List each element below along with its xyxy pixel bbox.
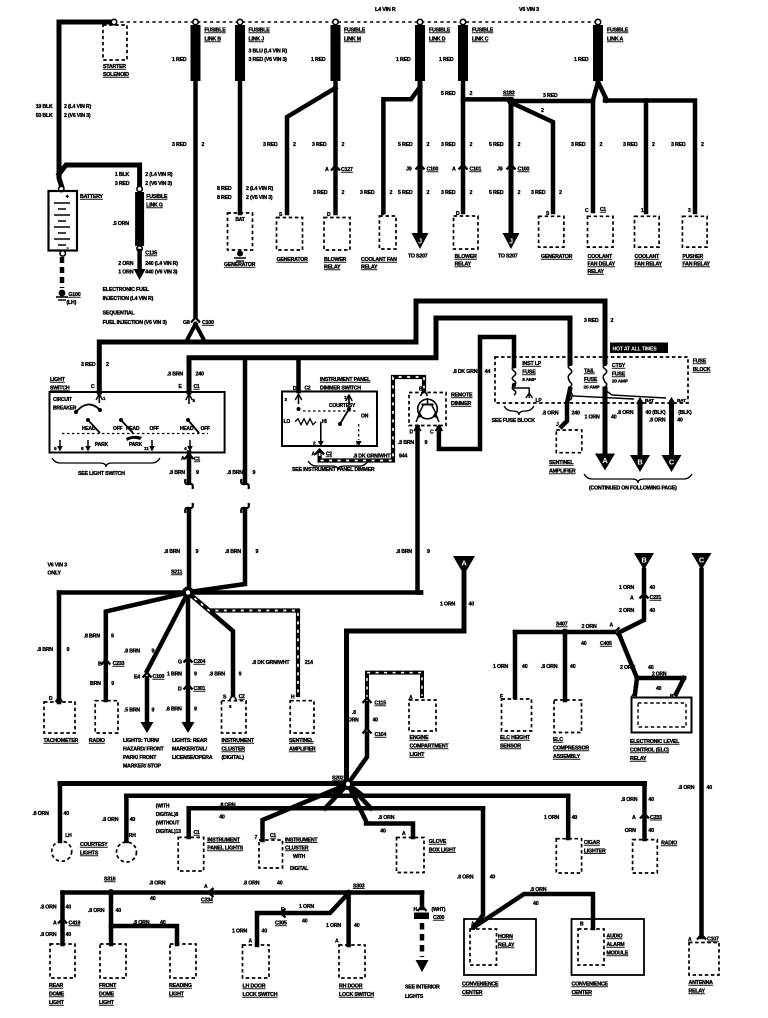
- svg-text:DIGITAL: DIGITAL: [290, 866, 308, 872]
- svg-text:3 RED: 3 RED: [441, 190, 456, 196]
- svg-text:40: 40: [611, 415, 617, 421]
- svg-text:D: D: [293, 386, 297, 392]
- svg-text:40: 40: [373, 718, 379, 724]
- svg-text:BOX LIGHT: BOX LIGHT: [429, 847, 457, 853]
- svg-text:.8 ORN: .8 ORN: [102, 817, 119, 823]
- svg-text:40: 40: [219, 815, 225, 821]
- svg-text:3 RED: 3 RED: [312, 142, 327, 148]
- svg-text:BLOWER: BLOWER: [455, 254, 478, 260]
- svg-text:C: C: [669, 458, 675, 467]
- svg-text:B: B: [637, 458, 643, 467]
- svg-text:SENTINEL: SENTINEL: [289, 738, 314, 744]
- svg-text:2 ORN: 2 ORN: [620, 665, 635, 671]
- svg-text:COURTESY: COURTESY: [329, 403, 356, 409]
- svg-text:FAN RELAY: FAN RELAY: [635, 262, 663, 268]
- svg-text:3 RED: 3 RED: [671, 142, 686, 148]
- svg-text:3 BLU (L4 VIN R): 3 BLU (L4 VIN R): [249, 49, 288, 55]
- svg-text:1 ORN: 1 ORN: [299, 904, 314, 910]
- svg-text:.8 DK GRN/WHT: .8 DK GRN/WHT: [353, 454, 391, 460]
- svg-text:J: J: [509, 239, 513, 246]
- svg-text:HEAD: HEAD: [180, 426, 194, 432]
- svg-text:RELAY: RELAY: [361, 265, 378, 271]
- svg-text:FUSE: FUSE: [584, 377, 598, 383]
- svg-text:2: 2: [202, 142, 205, 148]
- svg-text:C2: C2: [326, 452, 332, 458]
- svg-text:5 RED: 5 RED: [398, 190, 413, 196]
- svg-text:LIGHT: LIGHT: [50, 377, 66, 383]
- svg-text:DIGITAL)8: DIGITAL)8: [156, 812, 179, 818]
- svg-text:(DIGITAL): (DIGITAL): [222, 755, 245, 761]
- svg-text:LOCK SWITCH: LOCK SWITCH: [243, 992, 278, 998]
- svg-text:ANTENNA: ANTENNA: [689, 980, 714, 986]
- svg-text:SEE LIGHT SWITCH: SEE LIGHT SWITCH: [78, 471, 125, 477]
- svg-text:D: D: [327, 212, 331, 218]
- svg-text:S211: S211: [171, 570, 182, 576]
- svg-text:1 ORN: 1 ORN: [118, 270, 133, 276]
- svg-text:L4 VIN R: L4 VIN R: [375, 7, 396, 13]
- svg-text:FUSIBLE: FUSIBLE: [344, 28, 366, 34]
- svg-text:ELC HEIGHT: ELC HEIGHT: [500, 735, 531, 741]
- svg-text:COMPARTMENT: COMPARTMENT: [410, 744, 450, 750]
- svg-text:2: 2: [559, 190, 562, 196]
- svg-text:LINK D: LINK D: [429, 37, 446, 43]
- svg-text:FUSE: FUSE: [693, 359, 707, 365]
- svg-text:BLOWER: BLOWER: [324, 257, 347, 263]
- svg-text:.8 ORN: .8 ORN: [678, 785, 695, 791]
- svg-text:40: 40: [677, 418, 683, 424]
- svg-text:LICENSE/OPERA: LICENSE/OPERA: [172, 755, 213, 761]
- svg-text:LIGHTS: LIGHTS: [80, 851, 99, 857]
- svg-text:A: A: [249, 939, 253, 945]
- svg-text:.8 DK GRN: .8 DK GRN: [453, 369, 478, 375]
- svg-text:(LH): (LH): [67, 300, 77, 306]
- svg-text:BRN: BRN: [90, 681, 101, 687]
- svg-text:944: 944: [399, 454, 407, 460]
- svg-text:HI: HI: [322, 419, 327, 425]
- svg-text:ASSEMBLY: ASSEMBLY: [553, 754, 581, 760]
- svg-text:CONVENIENCE: CONVENIENCE: [572, 982, 609, 988]
- svg-text:C: C: [699, 556, 705, 565]
- svg-text:.8 ORN: .8 ORN: [457, 874, 474, 880]
- svg-text:44: 44: [485, 369, 491, 375]
- svg-text:SEE FUSE BLOCK: SEE FUSE BLOCK: [492, 418, 536, 424]
- svg-text:3: 3: [688, 208, 691, 214]
- svg-text:40: 40: [648, 828, 654, 834]
- svg-text:GENERATOR: GENERATOR: [541, 254, 573, 260]
- svg-text:C204: C204: [194, 659, 206, 665]
- svg-text:RELAY: RELAY: [498, 943, 515, 949]
- svg-text:INST LP: INST LP: [522, 361, 541, 367]
- svg-text:(WITHOUT: (WITHOUT: [156, 821, 180, 827]
- svg-text:2: 2: [470, 91, 473, 97]
- svg-text:ELECTRONIC FUEL: ELECTRONIC FUEL: [103, 287, 150, 293]
- svg-text:40: 40: [650, 608, 656, 614]
- svg-text:A: A: [471, 922, 475, 928]
- svg-text:A: A: [181, 456, 185, 462]
- svg-text:1 RED: 1 RED: [396, 57, 411, 63]
- svg-text:1 BRN: 1 BRN: [167, 672, 182, 678]
- svg-text:.8 BRN: .8 BRN: [84, 634, 100, 640]
- svg-text:8 RED: 8 RED: [217, 186, 232, 192]
- svg-text:.5 ORN: .5 ORN: [113, 221, 130, 227]
- svg-text:RH DOOR: RH DOOR: [339, 984, 363, 990]
- svg-text:.8 ORN: .8 ORN: [32, 811, 49, 817]
- svg-text:FUSIBLE: FUSIBLE: [205, 28, 227, 34]
- svg-text:J: J: [418, 239, 422, 246]
- svg-text:.8 BRN: .8 BRN: [227, 470, 243, 476]
- svg-text:HOT AT ALL TIMES: HOT AT ALL TIMES: [613, 347, 658, 353]
- svg-text:2 (L4 VIN R): 2 (L4 VIN R): [64, 104, 92, 110]
- svg-text:.8 ORN: .8 ORN: [542, 411, 559, 417]
- svg-text:3 RED: 3 RED: [584, 318, 599, 324]
- svg-text:8 RED: 8 RED: [217, 195, 232, 201]
- svg-text:D: D: [410, 430, 414, 436]
- svg-text:SOLENOID: SOLENOID: [103, 72, 129, 78]
- svg-text:.8 ORN: .8 ORN: [541, 664, 558, 670]
- svg-text:FUSE: FUSE: [522, 370, 536, 376]
- svg-text:LH: LH: [65, 833, 72, 839]
- svg-text:DOME: DOME: [49, 992, 65, 998]
- svg-text:3 RED: 3 RED: [263, 142, 278, 148]
- svg-text:MODULE: MODULE: [607, 951, 629, 957]
- svg-text:2: 2: [541, 108, 544, 114]
- svg-text:A: A: [53, 921, 57, 927]
- svg-text:2: 2: [427, 142, 430, 148]
- svg-text:5 RED: 5 RED: [398, 142, 413, 148]
- svg-text:3 RED: 3 RED: [313, 190, 328, 196]
- svg-text:(CONTINUED ON FOLLOWING PAGE): (CONTINUED ON FOLLOWING PAGE): [589, 486, 677, 492]
- svg-text:.8 ORN: .8 ORN: [40, 905, 57, 911]
- svg-text:40: 40: [66, 905, 72, 911]
- svg-text:C100: C100: [153, 674, 165, 680]
- svg-text:C107: C107: [707, 937, 719, 943]
- svg-text:CENTER: CENTER: [462, 990, 483, 996]
- svg-text:C135: C135: [145, 251, 157, 257]
- svg-text:2: 2: [427, 190, 430, 196]
- svg-text:1 ORN: 1 ORN: [544, 815, 559, 821]
- svg-text:GENERATOR: GENERATOR: [224, 262, 256, 268]
- svg-text:SWITCH: SWITCH: [50, 386, 70, 392]
- svg-text:S202: S202: [332, 776, 344, 782]
- svg-text:2 (V6 VIN 3): 2 (V6 VIN 3): [145, 181, 172, 187]
- svg-text:COOLANT: COOLANT: [635, 254, 661, 260]
- svg-text:INSTRUMENT: INSTRUMENT: [207, 837, 240, 843]
- svg-text:2: 2: [342, 142, 345, 148]
- svg-text:D: D: [178, 687, 182, 693]
- svg-text:COOLANT FAN: COOLANT FAN: [361, 257, 397, 263]
- svg-text:B: B: [641, 556, 647, 565]
- svg-text:40: 40: [570, 664, 576, 670]
- svg-text:GLOVE: GLOVE: [429, 839, 447, 845]
- svg-text:3 RED: 3 RED: [172, 142, 187, 148]
- svg-text:B: B: [98, 662, 102, 668]
- svg-text:INSTRUMENT PANEL: INSTRUMENT PANEL: [320, 377, 371, 383]
- svg-text:C127: C127: [341, 167, 353, 173]
- svg-text:240: 240: [196, 372, 204, 378]
- svg-text:CLUSTER: CLUSTER: [222, 747, 246, 753]
- svg-text:440 (V6 VIN 3): 440 (V6 VIN 3): [145, 270, 177, 276]
- svg-text:CENTER: CENTER: [572, 990, 593, 996]
- svg-text:RELAY: RELAY: [455, 262, 472, 268]
- svg-text:20 AMP: 20 AMP: [612, 379, 629, 385]
- svg-text:C100: C100: [427, 167, 439, 173]
- svg-text:LINK C: LINK C: [472, 37, 489, 43]
- svg-text:2 ORN: 2 ORN: [118, 261, 133, 267]
- svg-text:2 (L4 VIN R): 2 (L4 VIN R): [145, 172, 173, 178]
- svg-text:LP: LP: [536, 398, 543, 404]
- svg-text:LINK A: LINK A: [607, 37, 624, 43]
- svg-text:D: D: [456, 211, 460, 217]
- svg-text:40: 40: [707, 785, 713, 791]
- svg-text:1 ORN: 1 ORN: [232, 929, 247, 935]
- svg-text:LIGHTER: LIGHTER: [584, 848, 606, 854]
- svg-text:C305: C305: [275, 921, 287, 927]
- svg-text:2 ORN: 2 ORN: [652, 672, 667, 678]
- svg-text:(BLK): (BLK): [678, 410, 692, 416]
- svg-text:2 ORN: 2 ORN: [582, 624, 597, 630]
- svg-text:PARK/ FRONT: PARK/ FRONT: [123, 755, 157, 761]
- svg-text:C334: C334: [201, 898, 213, 904]
- svg-text:INJECTION (L4 VIN R): INJECTION (L4 VIN R): [103, 296, 154, 302]
- svg-text:D: D: [49, 696, 53, 702]
- svg-text:A: A: [461, 559, 467, 568]
- svg-text:C1: C1: [270, 833, 276, 839]
- svg-text:CONTROL (ELC): CONTROL (ELC): [630, 748, 669, 754]
- svg-text:OFF: OFF: [113, 426, 123, 432]
- svg-text:2: 2: [701, 142, 704, 148]
- svg-text:A: A: [325, 167, 329, 173]
- svg-text:A: A: [312, 452, 316, 458]
- svg-text:G8: G8: [183, 320, 190, 326]
- svg-text:AUDIO: AUDIO: [607, 934, 623, 940]
- svg-text:(WITH: (WITH: [156, 804, 170, 810]
- svg-text:1 ORN: 1 ORN: [619, 585, 634, 591]
- svg-text:5 RED: 5 RED: [489, 142, 504, 148]
- svg-text:BATTERY: BATTERY: [80, 194, 104, 200]
- svg-text:ONLY: ONLY: [48, 571, 62, 577]
- svg-text:C419: C419: [69, 921, 81, 927]
- svg-text:40: 40: [64, 811, 70, 817]
- svg-text:9: 9: [111, 634, 114, 640]
- svg-text:9: 9: [196, 470, 199, 476]
- svg-text:FAN DELAY: FAN DELAY: [588, 262, 616, 268]
- svg-text:FUSIBLE: FUSIBLE: [607, 28, 629, 34]
- svg-text:CONVENIENCE: CONVENIENCE: [462, 982, 499, 988]
- svg-text:C100: C100: [202, 320, 214, 326]
- svg-text:.8 BRN: .8 BRN: [166, 707, 182, 713]
- svg-text:2: 2: [106, 362, 109, 368]
- svg-text:B: B: [580, 922, 584, 928]
- svg-text:40: 40: [533, 901, 539, 907]
- svg-text:BAT: BAT: [645, 398, 654, 404]
- svg-text:9: 9: [427, 549, 430, 555]
- svg-text:ELC: ELC: [553, 737, 563, 743]
- svg-text:LO: LO: [284, 419, 291, 425]
- svg-text:C: C: [91, 384, 95, 390]
- svg-text:FAN RELAY: FAN RELAY: [682, 262, 710, 268]
- svg-text:3 RED: 3 RED: [81, 362, 96, 368]
- svg-text:A: A: [204, 884, 208, 890]
- svg-text:C: C: [585, 208, 589, 214]
- svg-text:3 RED (V6 VIN 3): 3 RED (V6 VIN 3): [249, 57, 288, 63]
- svg-text:C231: C231: [650, 595, 662, 601]
- svg-text:S183: S183: [503, 91, 515, 97]
- svg-text:C1: C1: [194, 830, 200, 836]
- svg-text:.8 ORN: .8 ORN: [133, 920, 150, 926]
- svg-text:.8 BRN: .8 BRN: [209, 672, 225, 678]
- svg-text:.8 BRN: .8 BRN: [396, 549, 412, 555]
- svg-text:2: 2: [611, 318, 614, 324]
- svg-text:40: 40: [648, 797, 654, 803]
- svg-text:2: 2: [390, 190, 393, 196]
- svg-text:A: A: [402, 831, 406, 837]
- svg-text:9: 9: [194, 672, 197, 678]
- svg-text:5 AMP: 5 AMP: [522, 377, 536, 383]
- svg-text:40: 40: [522, 664, 528, 670]
- svg-text:40: 40: [656, 686, 662, 692]
- svg-text:CLUSTER: CLUSTER: [285, 846, 309, 852]
- svg-text:RADIO: RADIO: [89, 738, 105, 744]
- svg-text:50 BLK: 50 BLK: [36, 113, 53, 119]
- svg-text:H: H: [414, 907, 418, 913]
- svg-text:9: 9: [111, 681, 114, 687]
- svg-text:A: A: [630, 596, 634, 602]
- svg-text:1: 1: [641, 208, 644, 214]
- svg-text:40: 40: [116, 908, 122, 914]
- svg-text:9: 9: [67, 647, 70, 653]
- svg-text:RADIO: RADIO: [661, 841, 677, 847]
- svg-text:3 RED: 3 RED: [441, 142, 456, 148]
- svg-text:2: 2: [293, 142, 296, 148]
- svg-text:1 ORN: 1 ORN: [585, 415, 600, 421]
- svg-text:40: 40: [650, 585, 656, 591]
- svg-text:C115: C115: [375, 701, 387, 707]
- svg-text:TACHOMETER: TACHOMETER: [44, 738, 79, 744]
- svg-text:.8 ORN: .8 ORN: [88, 908, 105, 914]
- svg-text:2 (V6 VIN 3): 2 (V6 VIN 3): [246, 195, 273, 201]
- svg-text:BAT: BAT: [235, 217, 244, 223]
- svg-text:9: 9: [239, 672, 242, 678]
- svg-text:9: 9: [152, 649, 155, 655]
- svg-text:V6 VIN 3: V6 VIN 3: [48, 563, 68, 569]
- svg-text:40: 40: [380, 829, 386, 835]
- svg-text:V6 VIN 3: V6 VIN 3: [519, 7, 539, 13]
- svg-text:AMPLIFIER: AMPLIFIER: [289, 747, 316, 753]
- svg-text:FUSIBLE: FUSIBLE: [146, 194, 168, 200]
- svg-text:INSTRUMENT: INSTRUMENT: [285, 837, 318, 843]
- svg-text:C2: C2: [239, 694, 245, 700]
- svg-text:DIMMER: DIMMER: [451, 401, 471, 407]
- svg-text:.8: .8: [352, 710, 356, 716]
- svg-text:3 RED: 3 RED: [531, 190, 546, 196]
- svg-text:A: A: [610, 623, 614, 629]
- svg-text:2: 2: [518, 142, 521, 148]
- svg-text:LIGHTS: TURN/: LIGHTS: TURN/: [123, 738, 160, 744]
- svg-text:FUSIBLE: FUSIBLE: [429, 28, 451, 34]
- svg-text:LINK M: LINK M: [344, 37, 362, 43]
- svg-text:STARTER: STARTER: [103, 64, 126, 70]
- svg-text:40: 40: [302, 919, 308, 925]
- svg-text:LINK G: LINK G: [146, 203, 163, 209]
- svg-text:.8 BRN: .8 BRN: [225, 549, 241, 555]
- svg-text:240 (L4 VIN R): 240 (L4 VIN R): [145, 261, 178, 267]
- svg-text:C104: C104: [375, 732, 387, 738]
- svg-text:1 RED: 1 RED: [311, 57, 326, 63]
- svg-text:.8 ORN: .8 ORN: [378, 815, 395, 821]
- svg-text:5 RED: 5 RED: [489, 190, 504, 196]
- svg-text:40: 40: [648, 665, 654, 671]
- svg-text:40 (BLK): 40 (BLK): [646, 410, 666, 416]
- svg-text:OFF: OFF: [201, 426, 211, 432]
- svg-text:40: 40: [572, 815, 578, 821]
- svg-text:2: 2: [470, 142, 473, 148]
- svg-text:HAZARD/ FRONT: HAZARD/ FRONT: [123, 747, 165, 753]
- svg-text:1 ORN: 1 ORN: [440, 602, 455, 608]
- svg-text:HORN: HORN: [498, 934, 513, 940]
- svg-text:COMPRESSOR: COMPRESSOR: [553, 746, 589, 752]
- svg-text:A: A: [632, 815, 636, 821]
- svg-text:MARKER/TAIL/: MARKER/TAIL/: [172, 747, 208, 753]
- svg-text:11: 11: [144, 446, 149, 452]
- svg-text:.8 DK GRN/WHT: .8 DK GRN/WHT: [252, 660, 290, 666]
- svg-text:RELAY: RELAY: [588, 269, 605, 275]
- svg-text:C1: C1: [600, 207, 606, 213]
- svg-text:.8 BRN: .8 BRN: [398, 440, 414, 446]
- svg-text:LIGHT: LIGHT: [169, 992, 185, 998]
- svg-text:40: 40: [150, 896, 156, 902]
- svg-text:SENTINEL: SENTINEL: [549, 460, 574, 466]
- svg-text:J: J: [556, 422, 559, 428]
- svg-text:LH DOOR: LH DOOR: [243, 984, 266, 990]
- svg-text:DOME: DOME: [99, 992, 115, 998]
- svg-text:.8 BRN: .8 BRN: [169, 470, 185, 476]
- svg-text:5 RED: 5 RED: [441, 91, 456, 97]
- svg-text:.8 ORN: .8 ORN: [219, 803, 236, 809]
- svg-text:J9: J9: [497, 167, 503, 173]
- svg-text:SEE INTERIOR: SEE INTERIOR: [405, 985, 440, 991]
- svg-text:40: 40: [66, 932, 72, 938]
- svg-text:AMPLIFIER: AMPLIFIER: [549, 469, 576, 475]
- svg-text:G100: G100: [68, 292, 80, 298]
- svg-text:40: 40: [277, 881, 283, 887]
- svg-text:214: 214: [305, 660, 313, 666]
- svg-text:CTSY: CTSY: [612, 363, 626, 369]
- svg-text:2 (V6 VIN 3): 2 (V6 VIN 3): [64, 113, 91, 119]
- svg-text:A: A: [335, 939, 339, 945]
- svg-text:LIGHT: LIGHT: [99, 1000, 115, 1006]
- svg-text:TO S207: TO S207: [498, 254, 518, 260]
- svg-text:C: C: [430, 430, 434, 436]
- svg-text:1 RED: 1 RED: [439, 57, 454, 63]
- svg-text:FRONT: FRONT: [99, 983, 117, 989]
- svg-text:40: 40: [160, 920, 166, 926]
- svg-text:ALARM: ALARM: [607, 942, 626, 948]
- svg-text:RELAY: RELAY: [630, 756, 647, 762]
- svg-text:3 RED: 3 RED: [360, 190, 375, 196]
- svg-text:WITH: WITH: [293, 854, 306, 860]
- svg-text:LINK B: LINK B: [205, 37, 222, 43]
- svg-text:9: 9: [256, 549, 259, 555]
- svg-text:3 RED: 3 RED: [571, 142, 586, 148]
- svg-text:40: 40: [581, 641, 587, 647]
- svg-text:FUEL INJECTION (V6 VIN 3): FUEL INJECTION (V6 VIN 3): [103, 320, 167, 326]
- svg-text:2: 2: [342, 190, 345, 196]
- svg-text:1 ORN: 1 ORN: [326, 923, 341, 929]
- svg-text:2: 2: [652, 142, 655, 148]
- svg-text:240: 240: [572, 411, 580, 417]
- svg-text:S316: S316: [104, 877, 116, 883]
- svg-text:.8 BRN: .8 BRN: [164, 549, 180, 555]
